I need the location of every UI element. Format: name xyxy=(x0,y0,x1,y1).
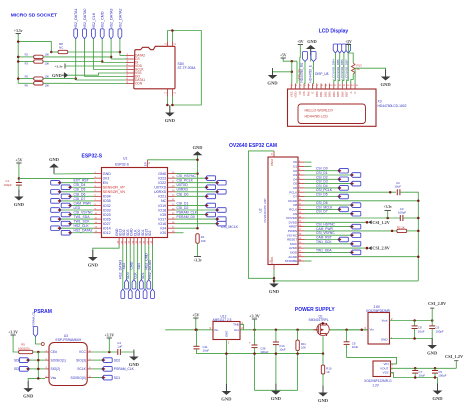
svg-text:SD1: SD1 xyxy=(114,376,121,380)
ground 2.8V caps xyxy=(427,338,438,356)
svg-text:U2: U2 xyxy=(259,208,263,212)
pin 7 SIO(3) xyxy=(87,359,91,361)
capacitor C10 10uF xyxy=(273,342,279,345)
pin bottom SD3 xyxy=(129,238,131,246)
svg-text:+: + xyxy=(249,341,251,345)
net flag CSI_MCLK xyxy=(338,207,348,212)
wire xyxy=(275,345,277,391)
transistor Q1 SM3401TRPL (P-MOSFET) xyxy=(314,322,330,336)
wire D5 xyxy=(305,183,351,185)
svg-text:IO18: IO18 xyxy=(158,208,166,212)
junction xyxy=(417,200,420,203)
capacitor C11 10uF xyxy=(194,346,200,349)
svg-text:SD0: SD0 xyxy=(137,263,141,270)
ground esp32 top right xyxy=(193,145,203,160)
pin G4 shield xyxy=(171,42,173,47)
svg-text:10K: 10K xyxy=(201,239,206,243)
pin 23 AGND xyxy=(298,256,305,258)
svg-text:HD44780LCD-1602: HD44780LCD-1602 xyxy=(378,104,407,108)
net flag HS2_DATA3 xyxy=(121,289,125,299)
pin 7 DO xyxy=(126,76,134,78)
wire +3.3v rail xyxy=(17,34,19,84)
wire SD2 xyxy=(126,245,128,280)
svg-text:GND: GND xyxy=(88,263,99,268)
wire to R13 xyxy=(349,45,354,64)
power +3.3V psram xyxy=(8,330,18,336)
pin 20 SIOC xyxy=(298,243,305,245)
junction xyxy=(291,60,294,63)
svg-text:GND: GND xyxy=(307,39,317,44)
wire TW1_SCK xyxy=(72,223,95,225)
wire SD3 xyxy=(129,245,131,289)
svg-text:CSI_D7: CSI_D7 xyxy=(74,197,86,201)
pin 3 V0 xyxy=(299,84,301,90)
svg-text:100pF: 100pF xyxy=(436,329,444,333)
svg-text:TW1_SDA: TW1_SDA xyxy=(74,215,91,219)
junction xyxy=(18,177,21,180)
net flag CSI_D1 xyxy=(205,203,215,208)
wire EP to gnd xyxy=(147,159,197,161)
pin 6 D5 xyxy=(298,183,305,185)
svg-text:CSI_D6: CSI_D6 xyxy=(74,192,86,196)
regulator U5 XC6206P122MR-G 1.2V xyxy=(373,361,391,377)
svg-text:CE#: CE# xyxy=(51,350,58,354)
pin right IO16 xyxy=(168,223,176,225)
wire cam gnd xyxy=(273,270,275,284)
junction xyxy=(431,319,434,322)
svg-text:GND: GND xyxy=(165,118,176,123)
pin left 14 IO12 xyxy=(94,232,102,234)
pin 26 PAD2 xyxy=(273,151,275,157)
wire U0TXD xyxy=(175,186,205,188)
junction xyxy=(101,60,104,63)
svg-text:PSRAM: PSRAM xyxy=(34,309,52,315)
svg-text:VSS: VSS xyxy=(382,371,388,375)
pin 9 DB2 xyxy=(324,84,326,90)
pin 2 CS xyxy=(126,58,134,60)
wire HS2_DATA0 xyxy=(84,39,86,77)
wire 1.2V out xyxy=(391,367,457,369)
pin left 12 IO27 xyxy=(94,223,102,225)
net flag HS2_DATA0 xyxy=(151,289,155,299)
junction xyxy=(296,329,299,332)
svg-text:HS2_DATA2: HS2_DATA2 xyxy=(118,9,122,30)
svg-text:SM3401TRPL: SM3401TRPL xyxy=(309,318,329,322)
net flag CSI_VSYNC xyxy=(351,233,361,238)
svg-text:AMS1117 2.5: AMS1117 2.5 xyxy=(213,318,232,322)
wire D2 xyxy=(305,170,338,172)
junction xyxy=(195,329,198,332)
junction xyxy=(345,329,348,332)
svg-text:HS2_DATA0: HS2_DATA0 xyxy=(83,9,87,30)
pin bottom CLK xyxy=(137,238,139,246)
wire V0 stub xyxy=(299,79,301,84)
pin bottom IO13 xyxy=(122,238,124,246)
wire RCLK xyxy=(305,208,338,210)
junction xyxy=(413,319,416,322)
wire HS2_CMD xyxy=(148,245,150,280)
pin 12 RCLK xyxy=(298,208,305,210)
wire PSRAM_D0 xyxy=(175,218,216,220)
net flag CSI_D7 xyxy=(351,211,361,216)
svg-text:+5V: +5V xyxy=(280,53,287,57)
ground camera xyxy=(269,277,280,295)
ground caps xyxy=(271,384,282,402)
svg-text:IO22: IO22 xyxy=(158,181,166,185)
wire R8 to DATA2 xyxy=(68,51,120,53)
svg-text:SENSOR_VP: SENSOR_VP xyxy=(103,186,126,190)
pin 4 VDD xyxy=(126,65,134,67)
net flag TW1_SCK xyxy=(351,242,361,247)
svg-text:SIO(3): SIO(3) xyxy=(76,358,86,362)
pin right GND xyxy=(168,173,176,175)
wire xyxy=(414,373,416,377)
power +5V supply xyxy=(192,312,199,319)
wire VSYNC xyxy=(305,234,351,236)
wire CE row xyxy=(33,351,45,353)
resistor R5 10K xyxy=(34,77,43,80)
wire DO xyxy=(85,76,127,78)
svg-text:STROBE: STROBE xyxy=(285,259,297,263)
svg-text:SD0: SD0 xyxy=(14,358,20,362)
pin 3 SIO(2) xyxy=(45,368,49,370)
wire xyxy=(254,348,256,391)
pin bottom CMD xyxy=(133,238,135,246)
ground 1.2V caps xyxy=(432,384,443,402)
wire xyxy=(346,330,348,342)
svg-text:PSRAM_CLK: PSRAM_CLK xyxy=(114,367,135,371)
svg-text:10K: 10K xyxy=(45,62,50,66)
wire CAM_PWR xyxy=(72,204,95,206)
net flag HS2_DATA2 xyxy=(118,29,122,39)
wire to R10 xyxy=(322,354,324,366)
svg-text:CSI_D5: CSI_D5 xyxy=(74,188,86,192)
pin 13 D9 xyxy=(298,213,305,215)
svg-text:ST-TF-003A: ST-TF-003A xyxy=(178,66,197,70)
net flag CSI_D7 xyxy=(51,199,61,204)
pin 8 VCC xyxy=(87,351,91,353)
capacitor C8 10uF xyxy=(412,326,418,329)
net flag U0RXD xyxy=(216,190,226,195)
pin 8 DATA1 xyxy=(126,79,134,81)
wire CLK xyxy=(137,245,139,289)
pin left 13 IO14 xyxy=(94,227,102,229)
pin 10 DB3 xyxy=(329,84,331,90)
svg-text:SCLK: SCLK xyxy=(77,367,86,371)
net flag SD1 xyxy=(143,289,147,299)
wire xyxy=(254,319,256,330)
pin 4 RS xyxy=(303,84,305,90)
svg-text:1.2V: 1.2V xyxy=(372,384,379,388)
wire DB4 xyxy=(334,53,336,84)
svg-text:CSI_PCLK: CSI_PCLK xyxy=(177,179,194,183)
wire C9 to reg2 vin xyxy=(347,344,397,364)
svg-text:GND: GND xyxy=(52,73,62,78)
power +3.3v R1 xyxy=(193,257,202,263)
pin 5 SO/SIO(0) xyxy=(87,377,91,379)
pin G2 shield xyxy=(171,89,173,97)
power +3.3V psram vcc xyxy=(104,333,114,339)
wire gnd vertical xyxy=(197,155,199,228)
wire CSI_D7 xyxy=(61,200,94,202)
pin 25 PAD1 xyxy=(273,265,275,270)
pin G1 shield xyxy=(166,89,168,97)
pin 12 DB5 xyxy=(337,84,339,90)
junction xyxy=(253,329,256,332)
net flag LED xyxy=(51,208,61,213)
wire main rail xyxy=(165,329,368,331)
junction xyxy=(119,51,122,54)
wire to gnd xyxy=(28,378,38,388)
wire HS2_DATA0 xyxy=(151,245,153,289)
svg-text:R3: R3 xyxy=(25,62,29,66)
capacitor C1 100pF xyxy=(16,183,22,186)
wire out tab xyxy=(240,324,243,329)
ground lcd top (up) xyxy=(306,39,317,62)
svg-text:10uF: 10uF xyxy=(203,349,210,353)
capacitor C4 1uF xyxy=(118,349,121,355)
pin 14 DOVDD xyxy=(298,217,305,219)
wire R11 bottom xyxy=(297,351,299,354)
wire U12 gnd xyxy=(225,340,227,391)
junction xyxy=(37,359,40,362)
svg-text:HD44780 LCD: HD44780 LCD xyxy=(305,115,329,119)
svg-text:IO32: IO32 xyxy=(103,204,111,208)
wire D0 xyxy=(305,161,312,163)
pin left 5 SENSOR_VN xyxy=(94,191,102,193)
svg-text:U0RXD: U0RXD xyxy=(177,188,189,192)
junction xyxy=(74,77,77,80)
svg-text:CSI_MCLK: CSI_MCLK xyxy=(221,225,239,229)
pin 16 K xyxy=(354,84,356,90)
pin 8 PCLK xyxy=(298,191,305,193)
svg-text:100uF: 100uF xyxy=(260,350,268,354)
wire CS xyxy=(111,58,126,60)
wire HS2_DATA3 xyxy=(122,245,124,289)
svg-text:SD3: SD3 xyxy=(126,272,130,279)
svg-text:HS2_CLK: HS2_CLK xyxy=(74,224,90,228)
junction xyxy=(110,56,113,59)
svg-text:SD2: SD2 xyxy=(114,358,121,362)
svg-text:VCC: VCC xyxy=(79,350,87,354)
wire CSI_MCLK row xyxy=(175,223,216,225)
pin 1 D0 xyxy=(298,161,305,163)
wire gnd rail xyxy=(255,389,298,391)
svg-text:CSI_1.2V: CSI_1.2V xyxy=(445,354,464,359)
wire xyxy=(434,368,436,370)
svg-text:CSI_D0: CSI_D0 xyxy=(177,192,189,196)
wire CDN xyxy=(43,82,126,84)
svg-text:IO34: IO34 xyxy=(103,195,111,199)
pin left 2 3V3 xyxy=(94,177,102,179)
pin 9 CDN xyxy=(126,83,134,85)
pin 5 D4 xyxy=(298,178,305,180)
wire HS2_CLK xyxy=(61,227,94,229)
svg-text:IO0: IO0 xyxy=(160,231,166,235)
junction xyxy=(434,367,437,370)
wire 3V3 row xyxy=(19,177,94,179)
net flag HS2_DATA1 xyxy=(74,29,78,39)
svg-text:IO26: IO26 xyxy=(103,217,111,221)
wire shield loop xyxy=(167,31,201,106)
wire xyxy=(431,321,433,326)
net flag SD1 xyxy=(102,375,112,380)
wire xyxy=(18,163,20,183)
wire VSS column xyxy=(291,61,293,83)
svg-text:+5V: +5V xyxy=(15,157,22,162)
svg-text:10K(103): 10K(103) xyxy=(18,346,30,350)
wire IO4 R1 stub xyxy=(175,227,198,229)
pin 8 DB1 xyxy=(320,84,322,90)
wire xyxy=(196,330,198,347)
net flag PSRAM_D0 xyxy=(216,217,226,222)
wire D9 xyxy=(305,213,351,215)
wire K to gnd xyxy=(355,68,386,83)
svg-text:HS2_DATA0: HS2_DATA0 xyxy=(148,260,152,279)
svg-text:IO35: IO35 xyxy=(103,199,111,203)
net flag SD3 xyxy=(128,289,132,299)
pin 11 D8 xyxy=(298,204,305,206)
pin 7 DB0 xyxy=(316,84,318,90)
net flag HS2_DATA0 xyxy=(83,29,87,39)
capacitor C6 100pF xyxy=(429,326,435,329)
svg-text:IO27: IO27 xyxy=(103,222,111,226)
net flag CAM_PWR xyxy=(61,203,71,208)
wire VDD column xyxy=(296,61,298,83)
svg-text:TW1_SCK: TW1_SCK xyxy=(74,220,91,224)
svg-text:LED: LED xyxy=(74,206,81,210)
wire vss gnd xyxy=(391,373,438,378)
wire E xyxy=(312,62,315,84)
svg-text:+3.3V: +3.3V xyxy=(104,333,114,337)
net flag CSI_D0 xyxy=(205,194,215,199)
svg-text:GND: GND xyxy=(380,82,391,87)
wire xyxy=(407,230,419,232)
power flag CSI_2.8V xyxy=(366,246,390,251)
svg-text:GND: GND xyxy=(221,397,232,402)
net flag CLK xyxy=(136,289,140,299)
svg-text:GND: GND xyxy=(267,81,278,86)
wire SIOD xyxy=(305,251,351,253)
net flag CSI_MCLK xyxy=(216,221,226,226)
junction xyxy=(17,56,20,59)
net flag SD2 xyxy=(102,358,112,363)
capacitor C36 100uF xyxy=(249,341,258,348)
pin 22 SIOD xyxy=(298,251,305,253)
svg-text:ESP-PSRAM64H: ESP-PSRAM64H xyxy=(56,338,82,342)
net flag SD3 xyxy=(19,367,29,372)
svg-text:Out: Out xyxy=(234,328,239,332)
svg-text:100pF: 100pF xyxy=(4,183,12,187)
wire to R9 xyxy=(13,335,19,352)
svg-text:U0TXD: U0TXD xyxy=(154,186,166,190)
pin 15 A xyxy=(350,84,352,90)
wire xyxy=(275,330,277,342)
svg-text:IO4: IO4 xyxy=(160,227,166,231)
svg-text:Vin: Vin xyxy=(214,328,219,332)
junction xyxy=(391,230,394,233)
pin 6 SCLK xyxy=(87,368,91,370)
junction xyxy=(417,217,420,220)
mcu U1 ESP32-S xyxy=(102,168,168,238)
svg-text:CMD: CMD xyxy=(130,261,134,269)
connector U2 OV2640 FPC 24P xyxy=(268,157,298,265)
junction xyxy=(37,351,40,354)
resistor R9 10K xyxy=(19,350,33,353)
net flag HS2_DATA2 xyxy=(61,230,71,235)
svg-text:R6: R6 xyxy=(25,84,29,88)
pin left 3 EN xyxy=(94,182,102,184)
regulator U4 XC6206P282MR 2.8V xyxy=(368,313,390,345)
wire PSRAM_CLK xyxy=(175,214,205,216)
svg-text:10K: 10K xyxy=(301,346,306,350)
wire SIOC xyxy=(305,243,351,245)
capacitor C7 10uF xyxy=(412,371,418,374)
junction xyxy=(195,329,198,332)
junction xyxy=(273,277,276,280)
net flag HD44780_RS xyxy=(303,52,308,62)
net flag CMD xyxy=(132,280,136,290)
svg-text:EXT_RST: EXT_RST xyxy=(74,179,89,183)
pin right IO22 xyxy=(168,182,176,184)
svg-text:IO25: IO25 xyxy=(103,213,111,217)
svg-text:SENSOR_VN: SENSOR_VN xyxy=(103,190,126,194)
svg-text:VIN: VIN xyxy=(383,362,388,366)
wire HS2_DATA3 xyxy=(110,39,112,59)
resistor R11 10K xyxy=(296,340,299,350)
svg-text:NC: NC xyxy=(161,199,167,203)
svg-text:PSRAM_CE: PSRAM_CE xyxy=(31,311,35,327)
wire DI xyxy=(102,62,126,64)
power +5V lcd left xyxy=(280,53,287,59)
pin 10 DGND xyxy=(298,200,305,202)
svg-text:TW1_SDA: TW1_SDA xyxy=(316,248,332,252)
wire U0RXD xyxy=(175,191,216,193)
svg-text:R5: R5 xyxy=(25,74,29,78)
wire TW1_SDA xyxy=(61,218,94,220)
net flag SD2 xyxy=(125,280,129,290)
net flag SD0 xyxy=(19,358,29,363)
svg-text:GND: GND xyxy=(269,289,280,294)
net flag TW1_SCK xyxy=(61,221,71,226)
wire AGND xyxy=(305,256,419,258)
junction xyxy=(275,352,278,355)
pin 4 D3 xyxy=(298,174,305,176)
resistor R6 10K xyxy=(34,82,43,85)
svg-text:XC6206P282MR: XC6206P282MR xyxy=(366,309,391,313)
pin 5 RW xyxy=(307,84,309,90)
wire D7 xyxy=(305,196,338,198)
svg-text:GND: GND xyxy=(193,145,203,150)
svg-text:+3.3v: +3.3v xyxy=(384,205,393,209)
power +3.3V sd xyxy=(14,29,23,35)
net flag CSI_HSYNC xyxy=(351,224,361,229)
junction xyxy=(171,29,174,32)
net flag CSI_D0 xyxy=(338,168,348,173)
power +5V lcd mid xyxy=(297,40,304,45)
net flag LCD1602_DB7 xyxy=(346,44,350,53)
net flag HS2_CLK xyxy=(51,226,61,231)
ground U12 xyxy=(221,384,232,402)
svg-text:HS2_DATA2: HS2_DATA2 xyxy=(74,229,93,233)
pin 3 D2 xyxy=(298,170,305,172)
pin right IO5 xyxy=(168,214,176,216)
pin bottom SD1 xyxy=(144,238,146,246)
wire xyxy=(254,330,256,345)
junction xyxy=(166,104,169,107)
svg-text:CSI_D5: CSI_D5 xyxy=(316,193,328,197)
capacitor C3 100uF xyxy=(400,215,403,221)
